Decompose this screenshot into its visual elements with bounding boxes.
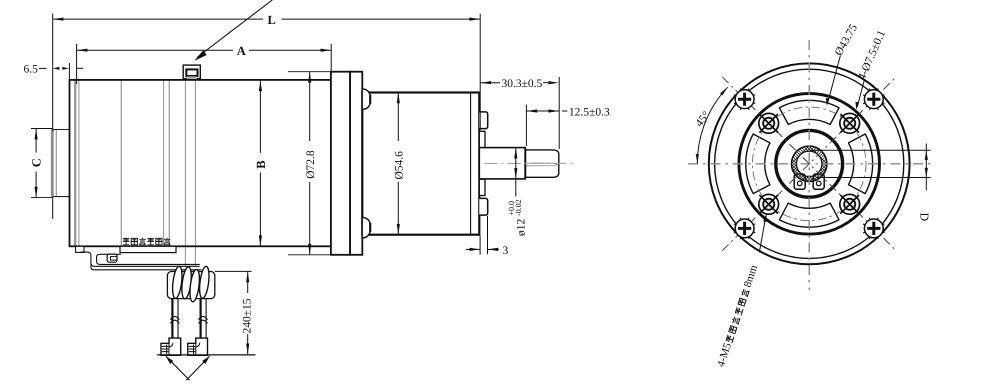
- svg-text:30.3±0.5: 30.3±0.5: [502, 78, 543, 90]
- cable clamp block: [107, 254, 117, 262]
- centerline vertical: [808, 40, 810, 290]
- 45 degree dimension arc: [693, 87, 727, 164]
- svg-text:A: A: [237, 44, 246, 58]
- coil loop 3 low: [188, 269, 201, 302]
- centerline horizontal: [688, 163, 932, 165]
- rear protrusion gray face: [51, 130, 54, 197]
- leader arrow to connector: [198, 0, 273, 57]
- svg-text:240±15: 240±15: [242, 298, 254, 333]
- label sticker note (CJK): [123, 238, 171, 245]
- C extension lines: [31, 128, 53, 130]
- dim 30.3: [480, 77, 559, 149]
- motor body internal gray lines: [75, 79, 195, 266]
- dim dia 54.6: [393, 93, 405, 235]
- dim 6.5: [24, 63, 84, 80]
- shaft flat section with chamfered end: [525, 150, 559, 177]
- gearbox body: [362, 93, 479, 235]
- lead wire 1: [172, 299, 206, 339]
- centerline diagonal SW-NE: [722, 77, 896, 251]
- face boss ring upper outer: [479, 112, 487, 129]
- face boss ring upper inner: [479, 131, 485, 147]
- svg-text:B: B: [254, 160, 268, 168]
- wire break marks: [170, 316, 207, 323]
- dim A: [77, 44, 332, 84]
- svg-text:3: 3: [503, 245, 509, 257]
- dimension D extension lines: [811, 149, 931, 151]
- tray outer outline: [81, 252, 202, 270]
- shaft boss thick circle: [776, 130, 843, 197]
- terminal baseline: [157, 354, 256, 356]
- big mounting screw bottom-left: [734, 218, 756, 240]
- small screw M5 bottom-left: [759, 194, 779, 214]
- gearbox screw head bottom: [363, 217, 370, 238]
- big mounting screw top-left: [734, 88, 756, 110]
- dim 12.5: [526, 105, 610, 146]
- pad bottom: [779, 203, 839, 227]
- svg-text:Ø72.8: Ø72.8: [305, 150, 317, 179]
- dim C: [30, 129, 44, 198]
- lead wire 2: [200, 299, 202, 339]
- crimp terminal 2: [188, 338, 208, 355]
- shaft flat edge lines: [526, 163, 557, 166]
- thick inner housing circle: [739, 94, 880, 235]
- dim B: [254, 81, 268, 247]
- dim dia 12 shaft: [507, 148, 527, 236]
- crimp terminal 1: [161, 338, 181, 355]
- ear tab left: [794, 174, 805, 189]
- svg-text:C: C: [30, 158, 44, 167]
- svg-text:Ø54.6: Ø54.6: [393, 151, 405, 180]
- bolt-circle dash-dot circle: [752, 107, 866, 221]
- dimension D: [918, 144, 932, 222]
- label 043.75 with leader: [826, 22, 860, 106]
- dim 3: [466, 216, 509, 257]
- face boss ring lower outer: [479, 198, 487, 215]
- flange plate: [331, 72, 350, 255]
- svg-text:6.5: 6.5: [24, 64, 39, 76]
- pad top: [779, 100, 839, 124]
- outer circle housing OD: [709, 63, 910, 264]
- coil loop 4: [198, 266, 210, 299]
- svg-text:12.5±0.3: 12.5±0.3: [569, 106, 610, 118]
- coil loop 2: [180, 266, 192, 299]
- V pointer leader left: [166, 356, 190, 380]
- svg-text:L: L: [268, 13, 276, 27]
- small screw M5 bottom-right: [840, 194, 860, 214]
- gearbox screw head top: [363, 89, 370, 110]
- body bottom-left step: [76, 246, 84, 252]
- connector housing on top: [183, 65, 200, 79]
- coil loop 1: [171, 266, 183, 299]
- L extension / rear face line: [52, 14, 54, 132]
- label 4-M5 thread note with leader: [715, 214, 767, 369]
- big mounting screw bottom-right: [863, 218, 885, 240]
- terminal strip under body: [120, 246, 176, 252]
- label 4-07.5 with leader: [855, 28, 888, 109]
- centerline diagonal NW-SE: [722, 77, 896, 251]
- tray middle line: [91, 264, 200, 267]
- small screw M5 top-right: [840, 113, 860, 133]
- dim 240 cable length: [215, 271, 254, 354]
- small screw M5 top-left: [759, 113, 779, 133]
- shaft axis centerline: [485, 162, 576, 164]
- gearbox rear plate: [350, 72, 362, 255]
- motor body: [70, 80, 331, 246]
- coil wrap box: [167, 272, 214, 299]
- svg-text:ø12: ø12: [516, 219, 528, 237]
- face boss ring lower inner: [479, 179, 485, 195]
- gearbox front cover line (3mm): [470, 93, 472, 235]
- V pointer leader right: [186, 356, 209, 380]
- dim L: [53, 13, 481, 130]
- big mounting screw top-right: [863, 88, 885, 110]
- ear tab right: [813, 174, 824, 189]
- pad right: [849, 134, 873, 194]
- chamfer circle: [715, 69, 904, 258]
- shaft 12mm section: [479, 148, 525, 179]
- tray inner outline: [97, 254, 200, 264]
- connector inner: [186, 69, 197, 76]
- svg-text:D: D: [918, 213, 932, 222]
- pad left: [746, 134, 770, 194]
- svg-text:-0.02: -0.02: [514, 199, 523, 216]
- rear protrusion top and bottom edges: [52, 129, 69, 131]
- dim dia 72.8: [288, 72, 331, 255]
- shaft hatched sleeve ring: [786, 123, 832, 211]
